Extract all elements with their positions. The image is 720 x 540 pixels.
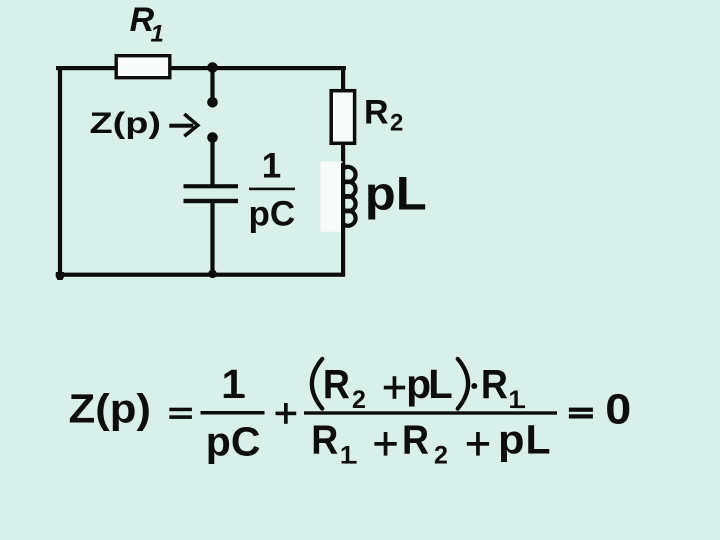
capacitor C top plate	[184, 184, 239, 188]
arrow pointing to port	[169, 124, 193, 128]
fraction bar of 1/pC	[249, 188, 295, 191]
inductor pL coil loop 2	[344, 182, 356, 197]
wire: inductor vertical core	[341, 163, 345, 276]
svg-text:L: L	[428, 361, 453, 407]
equation: final equals sign	[569, 408, 593, 412]
svg-text:L: L	[526, 417, 551, 463]
node: upper port dot	[207, 97, 218, 108]
svg-text:2: 2	[434, 442, 448, 470]
capacitor C bottom plate	[184, 199, 239, 203]
svg-text:pL: pL	[365, 167, 427, 220]
equation: serif foot of denominator subscript 1	[345, 461, 356, 464]
svg-text:2: 2	[352, 386, 366, 414]
equation: first equals sign	[169, 408, 192, 412]
svg-text:1: 1	[509, 386, 523, 414]
inductor pL coil loop 1	[344, 167, 356, 182]
svg-text:R: R	[364, 94, 389, 132]
serif foot of 1	[265, 175, 278, 178]
svg-text:1: 1	[222, 361, 245, 407]
inductor pL coil loop 3	[344, 196, 356, 211]
equation: serif foot of 1	[224, 394, 245, 397]
svg-text:pC: pC	[249, 195, 296, 234]
wire: top right corner vertical down to R2	[341, 66, 345, 91]
inductor pL coil loop 4	[344, 211, 356, 226]
svg-text:R: R	[323, 361, 350, 407]
node A (junction dot on top wire)	[207, 62, 218, 73]
svg-text:p: p	[498, 417, 525, 463]
wire: top middle-right segment	[171, 66, 346, 70]
wire: port to capacitor	[210, 138, 214, 186]
svg-text:Z(p): Z(p)	[90, 107, 162, 140]
svg-text:1: 1	[340, 442, 354, 470]
svg-text:1: 1	[262, 147, 281, 186]
equation: numerator close paren	[458, 359, 468, 409]
svg-text:pC: pC	[206, 419, 261, 465]
resistor R1	[116, 56, 170, 78]
equation: serif foot of numerator subscript 1	[514, 405, 525, 408]
svg-text:R: R	[311, 417, 338, 463]
equation: numerator plus	[384, 386, 405, 390]
node: lower port dot	[207, 132, 218, 143]
equation: big fraction bar	[304, 411, 557, 414]
equation: dot operator	[471, 383, 477, 389]
resistor R2	[331, 91, 354, 144]
inductor pL white backing rect	[321, 161, 343, 231]
wire: left vertical	[58, 66, 62, 275]
wire: capacitor to bottom wire	[210, 203, 214, 274]
node: bottom-left corner blob	[56, 272, 64, 280]
equation: small fraction bar	[201, 411, 265, 415]
wire: stub from junction down to port dot	[210, 68, 214, 98]
equation: plus between fractions	[276, 412, 297, 416]
node: bottom junction dot	[208, 270, 217, 279]
wire: bottom horizontal	[56, 273, 345, 277]
svg-text:2: 2	[390, 110, 403, 137]
wire: R2 to inductor	[341, 143, 345, 166]
equation: denominator first plus	[374, 442, 396, 446]
svg-text:0: 0	[605, 387, 631, 434]
svg-text:R: R	[402, 417, 429, 463]
wire: top left segment	[56, 66, 116, 70]
equation: numerator open paren	[312, 359, 322, 409]
svg-text:R: R	[481, 361, 508, 407]
equation: denominator second plus	[467, 442, 489, 446]
svg-text:1: 1	[151, 21, 164, 48]
svg-text:Z(p): Z(p)	[69, 386, 152, 432]
